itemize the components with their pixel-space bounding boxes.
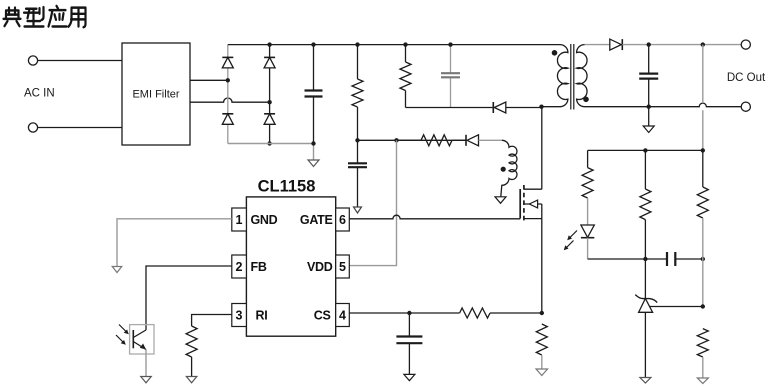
ground zener	[640, 378, 651, 384]
wire pin1 GND	[117, 219, 232, 267]
bridge diode D2 (upper right)	[264, 56, 275, 58]
svg-text:6: 6	[339, 213, 346, 227]
ground primary return	[308, 160, 319, 167]
pin 3 box	[232, 304, 247, 327]
resistor CS filter R5 (horizontal)	[460, 308, 490, 318]
wire pin2 FB to optocoupler	[146, 266, 232, 330]
wire bridge right column	[269, 45, 271, 144]
EMI filter block	[122, 43, 190, 145]
wire feedback top rail	[588, 149, 703, 151]
pin 2 box	[232, 255, 247, 278]
resistor startup R1	[357, 45, 359, 141]
ground RI resistor	[186, 377, 197, 383]
capacitor CS C4	[408, 313, 410, 374]
resistor sense R6	[536, 324, 547, 355]
AC input terminal (top)	[28, 56, 37, 65]
ground pin1	[112, 267, 122, 273]
transformer core	[571, 44, 574, 110]
wire clamp diode to primary bottom	[506, 107, 542, 109]
shunt regulator / zener U3	[644, 259, 646, 298]
wire divider to ref node	[702, 259, 704, 307]
wire diode to aux winding	[479, 139, 502, 141]
LED emission arrows	[569, 231, 578, 240]
bridge diode D1 (upper left)	[222, 56, 233, 58]
wire secondary top to output diode	[585, 44, 611, 46]
wire pin6 GATE to MOSFET (hop over VDD wire)	[349, 215, 520, 219]
pin 6 box	[336, 208, 350, 231]
junction primary bottom	[539, 105, 543, 109]
resistor snubber R3	[405, 45, 407, 108]
junction bridge nodes	[226, 78, 230, 82]
capacitor compensation C6 (horizontal)	[667, 252, 675, 266]
transformer secondary winding	[577, 45, 587, 107]
wire DC+ down to feedback rail	[702, 45, 704, 151]
bridge diode D4 (lower right)	[264, 113, 275, 115]
diode aux D5 (pointing left)	[465, 135, 467, 146]
svg-text:CS: CS	[314, 309, 331, 323]
wire zener ref to divider	[649, 306, 703, 308]
AC input terminal (bottom)	[28, 123, 37, 132]
wire EMI output upper to bridge left	[190, 79, 228, 81]
inductor aux winding	[501, 140, 517, 197]
resistor LED series R7	[587, 150, 589, 167]
LED of optocoupler (pointing down)	[581, 225, 594, 237]
wire AC live to EMI filter	[38, 60, 122, 62]
pin 5 box	[336, 255, 350, 278]
diode output D7 (pointing right)	[621, 39, 623, 50]
DC out terminal (-)	[741, 102, 750, 111]
svg-text:2: 2	[236, 260, 243, 274]
wire primary return to MOSFET drain	[541, 107, 543, 190]
capacitor VDD C3	[357, 140, 359, 207]
wire rectified DC+ top rail	[228, 44, 560, 46]
phase dot secondary	[583, 97, 589, 103]
wire opto emitter	[145, 350, 147, 377]
light arrows into opto	[119, 325, 128, 334]
ground VDD cap	[354, 207, 362, 213]
svg-text:EMI Filter: EMI Filter	[132, 89, 179, 101]
wire pin3 RI	[192, 315, 232, 327]
wire LED cathode down	[587, 238, 589, 259]
wire secondary bottom rail (hop at feedback drop)	[585, 103, 742, 107]
wire bridge bottom return rail	[228, 144, 314, 161]
ground divider	[697, 378, 708, 384]
resistor feedback middle R8	[644, 150, 646, 189]
DC out terminal (+)	[741, 40, 750, 49]
wire pin4 CS	[349, 312, 459, 314]
resistor RI R4	[186, 326, 197, 357]
wire VDD node to aux chain	[358, 139, 467, 141]
svg-text:GND: GND	[251, 213, 278, 227]
wire bridge left column	[227, 45, 229, 144]
wire AC neutral to EMI filter	[38, 127, 122, 129]
ground sense resistor	[536, 369, 548, 376]
transistor Q1 MOSFET	[519, 189, 521, 219]
wire output rail	[622, 44, 741, 46]
ground aux winding	[495, 197, 506, 204]
phase dot aux winding	[501, 167, 506, 172]
svg-text:5: 5	[339, 260, 346, 274]
wire zener anode to ground	[644, 312, 646, 377]
capacitor bulk C1	[313, 45, 315, 144]
svg-text:CL1158: CL1158	[258, 178, 316, 196]
pin 4 box	[336, 304, 350, 327]
svg-text:FB: FB	[251, 260, 267, 274]
bridge diode D3 (lower left)	[222, 113, 233, 115]
ground secondary	[648, 107, 650, 126]
wire EMI output lower to bridge right (hop over left column)	[190, 98, 270, 102]
diode snubber clamp D6 (pointing left)	[492, 102, 494, 113]
svg-text:AC IN: AC IN	[24, 88, 55, 100]
ground CS cap	[404, 374, 415, 380]
svg-text:4: 4	[339, 309, 346, 323]
wire VDD down to pin 5	[349, 140, 396, 265]
capacitor output C5	[648, 45, 650, 107]
svg-text:DC Out: DC Out	[727, 72, 766, 84]
optocoupler phototransistor U2	[130, 325, 154, 354]
op IC U1 CL1158 body	[246, 197, 335, 336]
resistor divider lower R10	[697, 329, 708, 357]
transformer primary winding	[542, 45, 568, 107]
resistor divider upper R9	[702, 150, 704, 187]
resistor aux R2 (horizontal)	[421, 135, 452, 146]
title 典型应用	[4, 6, 86, 27]
wire snubber clamp rail	[406, 107, 494, 109]
capacitor snubber C2	[450, 45, 452, 108]
svg-text:RI: RI	[256, 309, 268, 323]
svg-text:1: 1	[236, 213, 243, 227]
svg-text:VDD: VDD	[307, 260, 333, 274]
svg-text:3: 3	[236, 309, 243, 323]
phase dot primary	[552, 50, 558, 56]
pin labels	[251, 213, 333, 323]
svg-text:GATE: GATE	[300, 213, 333, 227]
pin 1 box	[232, 208, 247, 231]
ground opto emitter	[141, 377, 152, 383]
wire feedback bottom row	[588, 258, 667, 260]
